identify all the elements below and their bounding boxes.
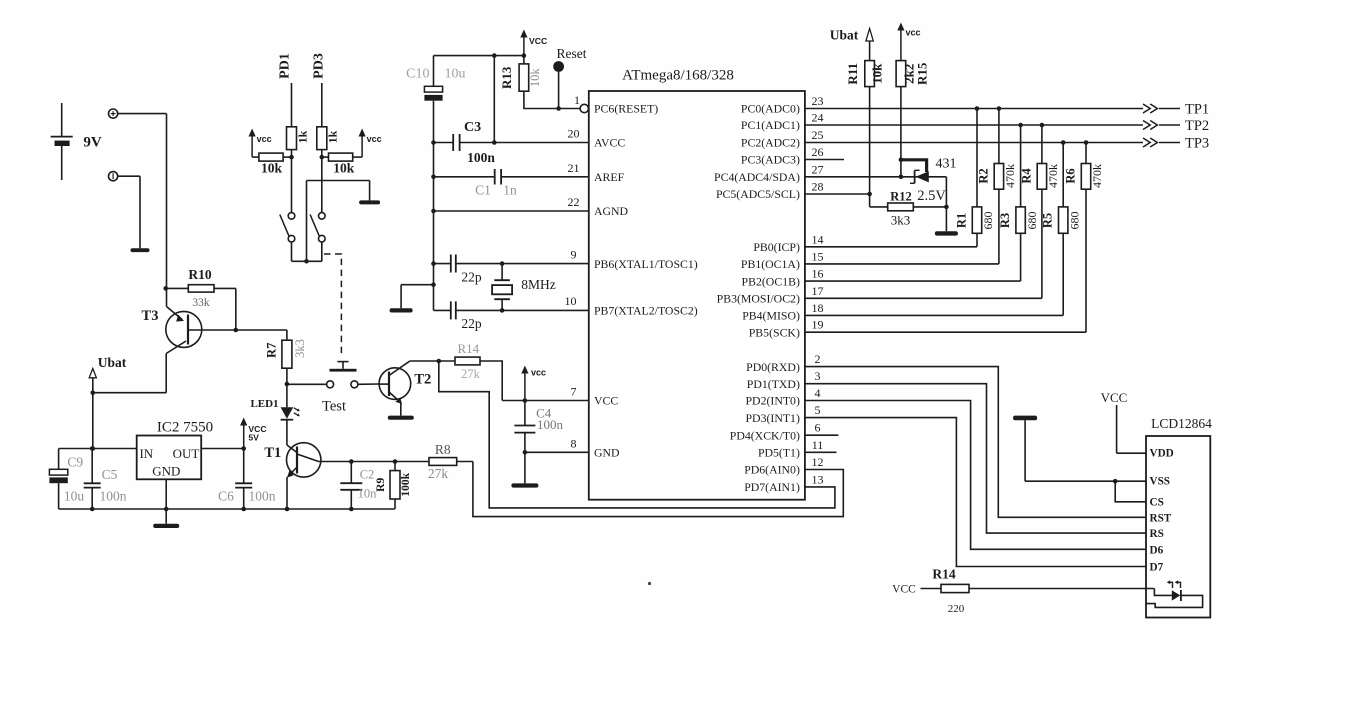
- svg-text:RS: RS: [1150, 528, 1164, 540]
- svg-text:10k: 10k: [528, 68, 542, 88]
- svg-text:2.5V: 2.5V: [917, 188, 946, 204]
- svg-text:PD6(AIN0): PD6(AIN0): [744, 463, 800, 477]
- svg-text:100n: 100n: [537, 417, 564, 432]
- svg-text:431: 431: [936, 157, 957, 172]
- svg-text:R3: R3: [998, 213, 1012, 228]
- svg-text:R1: R1: [955, 213, 969, 228]
- svg-text:4: 4: [815, 386, 821, 400]
- svg-text:VCC: VCC: [594, 394, 618, 408]
- svg-text:2: 2: [815, 352, 821, 366]
- svg-text:680: 680: [981, 212, 995, 230]
- svg-text:VSS: VSS: [1150, 476, 1171, 488]
- svg-text:100n: 100n: [249, 489, 276, 504]
- svg-text:1: 1: [574, 93, 580, 107]
- svg-text:C3: C3: [464, 120, 481, 135]
- svg-text:AREF: AREF: [594, 170, 625, 184]
- svg-text:7: 7: [571, 385, 577, 399]
- svg-text:PB2(OC1B): PB2(OC1B): [742, 274, 800, 288]
- svg-text:18: 18: [812, 301, 824, 315]
- svg-text:20: 20: [568, 127, 580, 141]
- svg-text:R4: R4: [1019, 168, 1033, 184]
- svg-text:TP2: TP2: [1185, 118, 1209, 134]
- svg-text:PC5(ADC5/SCL): PC5(ADC5/SCL): [716, 187, 800, 201]
- svg-text:470k: 470k: [1090, 164, 1104, 188]
- svg-text:22: 22: [568, 195, 580, 209]
- svg-text:26: 26: [812, 145, 824, 159]
- svg-text:680: 680: [1067, 212, 1081, 230]
- svg-text:8MHz: 8MHz: [521, 277, 556, 292]
- svg-text:6: 6: [815, 421, 821, 435]
- svg-text:9V: 9V: [83, 134, 102, 150]
- svg-text:R6: R6: [1064, 168, 1078, 183]
- svg-text:TP3: TP3: [1185, 135, 1209, 151]
- svg-text:680: 680: [1025, 212, 1039, 230]
- svg-text:vcc: vcc: [257, 134, 272, 144]
- svg-text:PD1(TXD): PD1(TXD): [747, 377, 800, 391]
- svg-text:Test: Test: [322, 398, 346, 414]
- svg-text:PD2(INT0): PD2(INT0): [746, 394, 800, 408]
- svg-text:R7: R7: [264, 343, 278, 358]
- svg-text:PC1(ADC1): PC1(ADC1): [741, 118, 800, 132]
- svg-text:CS: CS: [1150, 497, 1164, 509]
- svg-text:TP1: TP1: [1185, 101, 1209, 117]
- svg-text:PC3(ADC3): PC3(ADC3): [741, 153, 800, 167]
- svg-text:Ubat: Ubat: [830, 27, 859, 42]
- svg-text:AGND: AGND: [594, 204, 629, 218]
- svg-text:25: 25: [812, 128, 824, 142]
- svg-text:C10: C10: [406, 67, 429, 82]
- svg-text:R2: R2: [976, 168, 990, 183]
- svg-text:GND: GND: [152, 464, 180, 479]
- svg-text:PB1(OC1A): PB1(OC1A): [741, 257, 800, 271]
- svg-text:T2: T2: [414, 371, 431, 387]
- svg-text:C6: C6: [218, 489, 234, 504]
- svg-text:Ubat: Ubat: [98, 355, 127, 370]
- svg-text:10k: 10k: [333, 160, 355, 175]
- svg-text:ATmega8/168/328: ATmega8/168/328: [622, 68, 734, 84]
- svg-text:10: 10: [565, 294, 577, 308]
- svg-text:1k: 1k: [326, 130, 340, 143]
- svg-text:14: 14: [812, 232, 824, 246]
- svg-text:C5: C5: [102, 467, 118, 482]
- svg-text:19: 19: [812, 318, 824, 332]
- svg-text:PB0(ICP): PB0(ICP): [753, 240, 800, 254]
- svg-text:LCD12864: LCD12864: [1151, 416, 1212, 431]
- svg-text:R14: R14: [457, 341, 479, 356]
- svg-text:T1: T1: [264, 445, 281, 461]
- svg-text:3k3: 3k3: [891, 213, 911, 228]
- svg-text:PB7(XTAL2/TOSC2): PB7(XTAL2/TOSC2): [594, 304, 698, 318]
- svg-text:C2: C2: [360, 467, 375, 481]
- svg-text:R10: R10: [188, 267, 211, 282]
- svg-text:PB6(XTAL1/TOSC1): PB6(XTAL1/TOSC1): [594, 257, 698, 271]
- svg-text:27: 27: [812, 162, 824, 176]
- svg-text:100n: 100n: [100, 489, 127, 504]
- svg-text:15: 15: [812, 249, 824, 263]
- svg-text:5: 5: [815, 403, 821, 417]
- svg-text:10k: 10k: [870, 63, 885, 84]
- svg-text:22p: 22p: [461, 269, 482, 284]
- svg-text:PD5(T1): PD5(T1): [758, 446, 800, 460]
- svg-text:R12: R12: [890, 189, 912, 203]
- svg-text:PC6(RESET): PC6(RESET): [594, 102, 658, 116]
- svg-text:RST: RST: [1150, 512, 1172, 524]
- svg-text:3k3: 3k3: [293, 339, 307, 358]
- svg-text:22p: 22p: [461, 316, 482, 331]
- svg-text:Reset: Reset: [557, 46, 587, 61]
- svg-text:5V: 5V: [248, 433, 259, 443]
- svg-text:C1: C1: [475, 182, 491, 197]
- svg-text:8: 8: [571, 437, 577, 451]
- svg-text:470k: 470k: [1046, 164, 1060, 188]
- svg-text:PD3(INT1): PD3(INT1): [746, 411, 800, 425]
- svg-text:PD4(XCK/T0): PD4(XCK/T0): [730, 428, 800, 442]
- svg-text:AVCC: AVCC: [594, 136, 625, 150]
- svg-text:T3: T3: [142, 308, 159, 324]
- svg-text:IC2 7550: IC2 7550: [157, 420, 213, 436]
- svg-text:D6: D6: [1150, 544, 1164, 556]
- svg-text:13: 13: [812, 472, 824, 486]
- svg-text:3: 3: [815, 369, 821, 383]
- svg-text:27k: 27k: [428, 466, 449, 481]
- svg-text:PD0(RXD): PD0(RXD): [746, 360, 800, 374]
- svg-text:vcc: vcc: [367, 134, 382, 144]
- svg-text:IN: IN: [139, 446, 153, 461]
- svg-text:R8: R8: [435, 442, 451, 457]
- svg-text:16: 16: [812, 267, 824, 281]
- svg-text:27k: 27k: [461, 367, 481, 381]
- svg-text:R9: R9: [375, 478, 387, 492]
- svg-text:GND: GND: [594, 446, 620, 460]
- svg-text:12: 12: [812, 455, 824, 469]
- svg-text:10k: 10k: [261, 160, 283, 175]
- svg-text:10u: 10u: [64, 489, 85, 504]
- svg-text:PB5(SCK): PB5(SCK): [749, 325, 800, 339]
- svg-text:24: 24: [812, 111, 824, 125]
- svg-text:R14: R14: [932, 566, 955, 581]
- svg-text:LED1: LED1: [250, 398, 278, 410]
- svg-text:17: 17: [812, 284, 824, 298]
- svg-text:R11: R11: [845, 63, 860, 85]
- svg-text:PB3(MOSI/OC2): PB3(MOSI/OC2): [717, 292, 800, 306]
- svg-text:R15: R15: [915, 62, 930, 85]
- svg-text:VCC: VCC: [529, 36, 547, 46]
- svg-text:VCC: VCC: [892, 584, 916, 596]
- svg-text:33k: 33k: [192, 297, 210, 309]
- svg-text:28: 28: [812, 180, 824, 194]
- svg-text:9: 9: [571, 248, 577, 262]
- svg-text:PC4(ADC4/SDA): PC4(ADC4/SDA): [714, 170, 800, 184]
- svg-text:23: 23: [812, 94, 824, 108]
- svg-text:220: 220: [948, 603, 965, 615]
- svg-text:PD7(AIN1): PD7(AIN1): [744, 480, 800, 494]
- svg-text:1k: 1k: [295, 130, 309, 143]
- svg-text:21: 21: [568, 161, 580, 175]
- svg-text:100k: 100k: [400, 472, 412, 496]
- svg-text:470k: 470k: [1003, 164, 1017, 188]
- svg-text:PD3: PD3: [311, 53, 326, 79]
- svg-text:D7: D7: [1150, 562, 1164, 574]
- svg-text:PC2(ADC2): PC2(ADC2): [741, 136, 800, 150]
- svg-text:vcc: vcc: [906, 27, 921, 37]
- svg-text:PB4(MISO): PB4(MISO): [742, 309, 800, 323]
- svg-text:10u: 10u: [445, 67, 466, 82]
- svg-text:C9: C9: [67, 454, 83, 469]
- svg-text:PC0(ADC0): PC0(ADC0): [741, 102, 800, 116]
- svg-text:11: 11: [812, 438, 824, 452]
- svg-text:1n: 1n: [503, 182, 517, 197]
- svg-text:VCC: VCC: [1101, 390, 1128, 405]
- svg-text:vcc: vcc: [531, 367, 546, 377]
- svg-text:OUT: OUT: [173, 446, 200, 461]
- svg-text:VDD: VDD: [1150, 447, 1174, 459]
- svg-text:10n: 10n: [358, 486, 378, 500]
- svg-text:R5: R5: [1041, 213, 1055, 228]
- svg-text:100n: 100n: [467, 150, 495, 165]
- svg-text:R13: R13: [499, 66, 514, 89]
- svg-text:PD1: PD1: [278, 53, 293, 79]
